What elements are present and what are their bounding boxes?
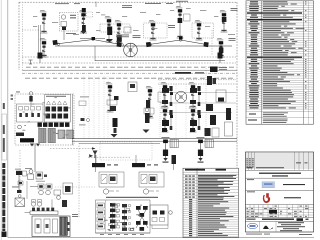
manifold wire left [80, 38, 105, 40]
intermediate gauge parts [79, 97, 90, 126]
oil pump P0 circle [124, 43, 138, 57]
return oil header wire [72, 138, 237, 140]
bill of materials rows [246, 1, 314, 112]
pressure oil header wire [55, 45, 232, 47]
slope valve blob a [53, 40, 58, 45]
top small boxes row [18, 181, 23, 185]
servomotor valve MIV-2 [40, 38, 48, 57]
cooler box [63, 183, 73, 194]
drain header wire [79, 143, 160, 145]
OPU left sub box [17, 104, 44, 122]
servomotor valve MIV-1 [40, 10, 48, 33]
filter box F2 [128, 82, 137, 92]
oil pressure unit boundary [15, 94, 74, 145]
bill of materials table frame [246, 1, 314, 124]
aux valve box [54, 190, 61, 195]
slope valve blob c [146, 42, 151, 47]
lube middle valve column 2 [122, 204, 131, 231]
bypass valve column U1 [60, 13, 79, 32]
dashed link arrows [50, 148, 95, 150]
main pump pair [36, 181, 52, 195]
slope valve blob b [117, 42, 122, 47]
funnel drain symbol [93, 151, 98, 159]
node junction b [92, 38, 94, 40]
misc middle small parts [158, 92, 164, 102]
OPU gauge left [18, 125, 22, 129]
PRV dark column [82, 8, 86, 13]
guide vane second columns [169, 86, 200, 130]
isolating valve IV1 [220, 10, 228, 32]
lube texture [98, 203, 142, 231]
revision strip rotated text entries [2, 163, 5, 168]
apex valve blob [92, 37, 96, 40]
drain dashed corner [55, 186, 95, 188]
notes text row 2 [25, 77, 30, 80]
dashed spur x212 [211, 30, 213, 55]
revision strip rotated text upper [3, 103, 5, 109]
supply slope wire right [149, 40, 207, 45]
dashed box above brake groups [100, 142, 152, 160]
OPU texture [22, 97, 70, 138]
tank strainer hatched [60, 217, 68, 236]
guide vane servo valve G4 [189, 106, 197, 132]
top section annotation texts [33, 8, 235, 35]
cad file note [246, 233, 262, 236]
top margin labels [55, 2, 69, 5]
pressure relief valve PRV [79, 10, 87, 33]
dashed riser x79 [78, 143, 80, 218]
pilot dashed box right [192, 23, 214, 38]
OPU pump cluster [20, 138, 34, 142]
return oil header wire 2 [72, 140, 237, 142]
client row [247, 178, 254, 181]
CV2 dark body [117, 36, 122, 42]
drawing number row [246, 217, 314, 219]
tank side marks [68, 222, 70, 225]
section divider wire [22, 69, 237, 71]
section divider dash-dot [22, 72, 237, 74]
distributor valve DV2 [195, 20, 203, 40]
SV3 aux [146, 100, 150, 108]
control valve CV2 [115, 20, 123, 43]
suction manifold bar [30, 211, 58, 214]
revision history rows [246, 152, 314, 170]
CV1 dark body [107, 27, 112, 36]
signature mark [263, 226, 273, 230]
label governor oil supply [116, 34, 129, 37]
gauge pump box [150, 205, 168, 225]
guide vane servo valve G3 [161, 106, 169, 132]
middle dashed risers [83, 77, 85, 140]
oil sump tank T1 [32, 216, 70, 237]
small filter left column [15, 169, 27, 193]
cooling water valve group W2 [195, 137, 214, 163]
drain valve DR [218, 53, 223, 59]
revision strip end block [2, 232, 7, 238]
bill of materials note row [246, 112, 314, 122]
IV2 extra cluster [219, 48, 224, 54]
OPU filter pair [58, 130, 65, 139]
OPU manifold dark row [38, 123, 70, 127]
guide vane servo valve G2 [189, 82, 197, 108]
SV3 lower parts [145, 108, 149, 112]
node junction e [179, 39, 181, 41]
drain valve DL [38, 53, 43, 59]
guide vane pump circle P2 [175, 91, 187, 103]
node junction d [149, 43, 151, 45]
title block footer text [277, 222, 305, 231]
OPU accumulator hatched A1 [39, 129, 47, 143]
lubrication system title [106, 197, 158, 198]
supply slope wire left [56, 40, 121, 45]
lube crossover valves [136, 206, 148, 231]
revision strip box [2, 114, 7, 160]
lube left column boxes [97, 200, 106, 233]
NRV1 dashed box [144, 23, 168, 38]
PRV2 aux blocks [114, 96, 119, 100]
notes text row 1 [26, 66, 31, 69]
slope valve blob d [204, 42, 209, 47]
pressure reducing valve PRV2 [106, 82, 114, 112]
lube bottom marks [100, 233, 144, 236]
drain riser wire [34, 143, 36, 172]
return valve stack RV [113, 118, 118, 127]
IV1 extra cluster [222, 17, 227, 22]
solenoid valve SV3 [146, 86, 154, 118]
sheet trim line left outer [0, 0, 2, 240]
pressure tank column [226, 108, 231, 120]
sheet frame line left [7, 0, 9, 238]
revision strip tick labels [11, 95, 13, 97]
lower distribution wire [95, 60, 225, 62]
lubrication oil unit block [96, 200, 151, 233]
pilot valve dashed box [100, 24, 130, 32]
brake valve group B1 [92, 155, 124, 194]
project row with red logo [247, 190, 255, 193]
BHEL logo [247, 223, 257, 228]
main distributing valve MDV [176, 6, 184, 38]
feed valve circles [31, 202, 35, 206]
restrictor block R1 [210, 67, 218, 73]
turbine lever system boundary dashed [19, 1, 237, 3]
isolating valve IV2 [217, 38, 225, 57]
border riser line [95, 2, 97, 8]
transfer pump cluster [25, 168, 47, 179]
title block frame [246, 152, 314, 232]
vent symbol [29, 60, 33, 64]
brake valve group B2 [132, 155, 164, 194]
legend table header [185, 169, 205, 171]
right column clusters [206, 104, 213, 111]
title text [246, 169, 314, 171]
node junction a [57, 43, 59, 45]
MIV double riser wires [38, 25, 40, 57]
check valve NRV1 [149, 20, 157, 40]
control valve CV1 [105, 16, 113, 42]
right section dashed riser [205, 66, 207, 140]
MDV extra cluster [178, 18, 183, 23]
motor M1 box with cross [15, 198, 25, 207]
legend table rows [183, 175, 239, 237]
lube middle valve column 1 [110, 203, 120, 231]
guide vane servo valve G1 [161, 82, 169, 108]
tank inlet wires [25, 212, 31, 214]
left dashed riser [19, 150, 21, 192]
sheet frame line bottom [8, 236, 314, 238]
node junction f [204, 43, 206, 45]
small stack S5 [172, 155, 177, 164]
cooling water valve group W1 [160, 137, 179, 163]
OPU inlet valve [29, 92, 33, 96]
guide vane section dashed header [158, 79, 236, 81]
legend table frame [183, 168, 239, 237]
node junction c [121, 44, 123, 46]
OPU right sub box [45, 95, 71, 123]
restrictor block R2 [216, 90, 226, 102]
approval grid [246, 205, 314, 218]
OPU accumulator hatched A2 [48, 129, 56, 143]
guide vane servo extra blobs [160, 72, 236, 138]
